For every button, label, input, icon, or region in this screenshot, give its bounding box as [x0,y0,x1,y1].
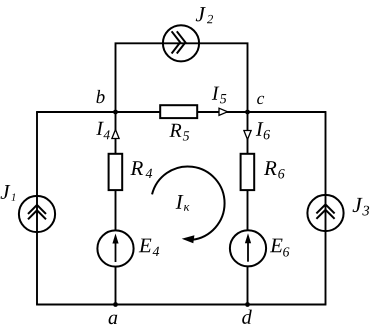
label R4 [130,161,152,178]
current source J2 [163,25,199,61]
label a [109,315,118,325]
label R6 [264,161,285,178]
wire J2 branch from b up over to c [116,43,248,112]
wire bottom rail through a and d [36,304,326,306]
label E4 [139,239,159,256]
label J1 [1,185,16,201]
arrow I5 (current direction on wire b-c) [219,108,228,115]
label Ik [176,195,190,211]
label E6 [270,239,289,257]
EMF source E4 [97,230,133,266]
current source J1 [19,196,55,232]
wire top horizontal rail through b and c [36,111,326,113]
wire left rail (x=37) [36,112,38,305]
label c [257,96,264,104]
label J2 [196,7,213,23]
arrow I6 (pointing down, below node c) [244,131,251,140]
wire branch c down to d [247,112,249,305]
label I5 [212,87,226,104]
EMF source E6 [230,230,266,266]
loop-current arrow Ik (clockwise arc) [152,166,225,243]
label b [96,90,104,103]
wire branch b down to a [115,112,117,305]
label d [242,310,252,324]
resistor R6 [241,154,255,190]
node d (junction dot) [245,302,250,307]
resistor R5 [160,105,197,118]
wire right rail (x=325.5) [325,113,327,305]
label J3 [353,198,370,216]
node b (junction dot) [113,110,118,115]
resistor R4 [109,154,123,190]
arrow I4 (pointing up, below node b) [112,130,119,139]
current source J3 [307,195,343,231]
label I6 [256,122,270,139]
label R5 [169,124,189,141]
node c (junction dot) [245,110,250,115]
node a (junction dot) [113,302,118,307]
label I4 [96,122,110,139]
